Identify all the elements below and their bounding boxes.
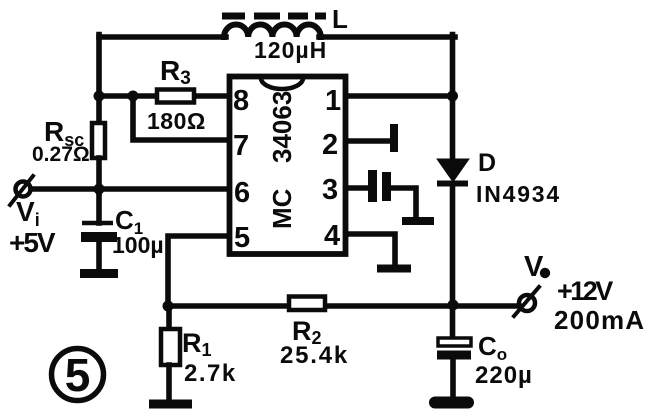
- resistor R3 body: [157, 90, 194, 103]
- svg-text:5: 5: [65, 349, 91, 401]
- resistor R1 body: [161, 329, 180, 365]
- terminal Vi input: [16, 182, 31, 197]
- resistor R1 lower lead: [166, 365, 172, 401]
- node junction top-left: [94, 91, 105, 102]
- svg-text:34063: 34063: [267, 91, 297, 163]
- svg-text:100µ: 100µ: [112, 232, 164, 258]
- wire right rail lower: [450, 184, 456, 338]
- capacitor C1 bottom plate: [81, 232, 117, 242]
- svg-text:MC: MC: [267, 188, 297, 229]
- wire Rsc to input node: [96, 158, 102, 192]
- svg-text:8: 8: [233, 85, 249, 117]
- node junction pin1 right rail: [447, 91, 458, 102]
- svg-text:3: 3: [322, 174, 338, 206]
- svg-text:V: V: [524, 251, 544, 283]
- svg-text:200mA: 200mA: [554, 305, 645, 335]
- svg-text:0.27Ω: 0.27Ω: [32, 143, 90, 166]
- capacitor pin3 left plate: [368, 170, 377, 202]
- svg-text:180Ω: 180Ω: [147, 108, 206, 134]
- capacitor C0 bottom plate: [437, 351, 471, 360]
- svg-text:2.7k: 2.7k: [184, 360, 237, 387]
- ground pin4: [377, 265, 411, 273]
- figure number circle 5: [52, 349, 104, 401]
- svg-text:120µH: 120µH: [254, 37, 327, 63]
- wire feedback rail left: [168, 303, 290, 309]
- svg-text:+5V: +5V: [9, 227, 56, 258]
- wire pin5: [168, 236, 230, 308]
- ground C0: [435, 397, 468, 409]
- capacitor C1 lower lead: [96, 241, 102, 270]
- svg-text:2: 2: [322, 129, 338, 161]
- svg-text:5: 5: [234, 222, 250, 254]
- ground pin3: [402, 217, 434, 225]
- wire pin2: [347, 138, 392, 144]
- svg-text:4: 4: [324, 220, 340, 252]
- svg-text:220µ: 220µ: [475, 362, 533, 389]
- resistor R1 upper lead: [166, 306, 172, 330]
- svg-text:1: 1: [325, 85, 341, 117]
- diode D cathode bar: [437, 181, 468, 187]
- wire pin8 feed right part: [193, 93, 230, 99]
- wire pin3 to ground: [388, 188, 416, 218]
- svg-text:25.4k: 25.4k: [280, 342, 349, 369]
- wire top rail left segment: [99, 34, 226, 40]
- resistor Rsc body: [92, 123, 105, 158]
- wire left rail vertical: [96, 35, 102, 125]
- IC U1 notch: [261, 78, 303, 89]
- wire pin8 feed left part: [99, 93, 158, 99]
- wire pin7 branch: [133, 96, 230, 140]
- wire right rail upper: [450, 35, 456, 162]
- node junction output: [448, 300, 459, 311]
- svg-text:+12V: +12V: [557, 276, 613, 306]
- inductor L: [224, 24, 321, 37]
- node junction feedback: [163, 301, 174, 312]
- svg-text:L: L: [332, 4, 348, 34]
- capacitor C1 lead: [96, 189, 102, 223]
- node junction input C1: [94, 184, 105, 195]
- node junction R3 left: [128, 91, 139, 102]
- capacitor C0 top plate: [438, 338, 471, 346]
- wire feedback rail right: [324, 303, 519, 309]
- capacitor pin3 right plate: [382, 172, 391, 201]
- wire input rail: [31, 186, 230, 192]
- capacitor C1 top plate: [82, 221, 113, 226]
- ground C1: [80, 269, 118, 278]
- wire top rail right segment: [319, 34, 455, 40]
- terminal Vo output: [519, 295, 535, 311]
- resistor R2 body: [289, 297, 325, 311]
- wire pin3 lead: [347, 185, 369, 191]
- wire pin1 to right rail: [347, 93, 452, 99]
- svg-text:6: 6: [234, 177, 250, 209]
- diode D body: [439, 160, 467, 180]
- capacitor C0 lower lead: [450, 359, 456, 398]
- svg-text:IN4934: IN4934: [476, 181, 561, 207]
- ground R1: [149, 400, 192, 409]
- IC U1 MC34063 outline: [230, 77, 346, 255]
- terminator pin2 bar: [390, 124, 398, 152]
- svg-text:7: 7: [233, 130, 249, 162]
- svg-text:D: D: [478, 149, 496, 177]
- wire pin4: [347, 234, 395, 266]
- dashed line above inductor: [222, 13, 326, 20]
